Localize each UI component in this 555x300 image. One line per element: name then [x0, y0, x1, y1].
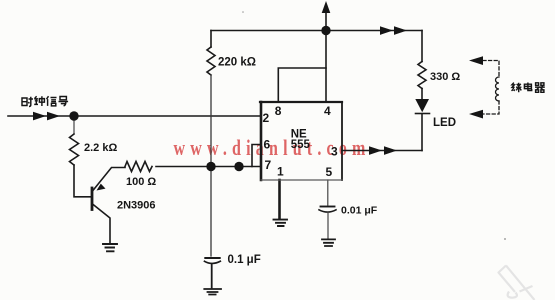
svg-text:4: 4: [324, 104, 331, 118]
svg-text:6: 6: [264, 138, 271, 152]
svg-text:330 Ω: 330 Ω: [430, 71, 460, 83]
svg-text:2N3906: 2N3906: [117, 200, 156, 212]
svg-text:8: 8: [275, 104, 282, 118]
svg-text:7: 7: [265, 158, 272, 172]
svg-text:LED: LED: [433, 117, 456, 129]
svg-text:2: 2: [263, 111, 270, 125]
svg-text:2.2 kΩ: 2.2 kΩ: [84, 142, 117, 154]
svg-text:3: 3: [331, 145, 338, 159]
svg-text:0.01 μF: 0.01 μF: [341, 205, 378, 217]
svg-text:220 kΩ: 220 kΩ: [218, 57, 256, 69]
svg-text:1: 1: [277, 165, 284, 179]
svg-text:www.dianlut.com: www.dianlut.com: [174, 136, 371, 160]
svg-text:555: 555: [291, 139, 311, 151]
svg-text:0.1 μF: 0.1 μF: [228, 254, 261, 266]
svg-text:100 Ω: 100 Ω: [126, 176, 156, 188]
svg-text:5: 5: [326, 165, 333, 179]
